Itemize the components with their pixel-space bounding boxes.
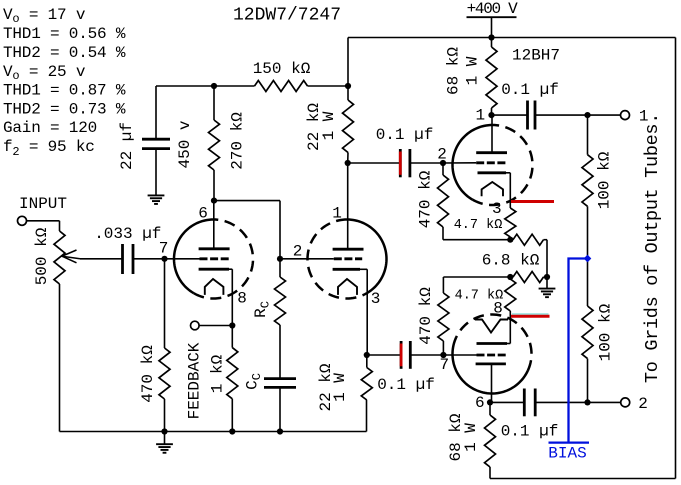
resistor 470 kΩ lower [417, 277, 449, 355]
node V1a grid pin7 [161, 256, 167, 262]
triode V1b grid [280, 258, 362, 260]
svg-text:1 W: 1 W [462, 423, 480, 452]
svg-text:8: 8 [237, 289, 247, 307]
node feedback junction [229, 322, 235, 328]
wire plate to cap upper [348, 162, 401, 164]
svg-text:500 kΩ: 500 kΩ [33, 227, 51, 285]
resistor 470 kΩ grid leak [139, 259, 170, 432]
triode V1a cathode [199, 268, 233, 271]
wire rail2 mid seg [214, 85, 255, 87]
resistor 68 kΩ 1W upper [445, 38, 497, 116]
potentiometer 500 kΩ [33, 227, 65, 285]
triode BH7b heater [475, 320, 508, 333]
tube label 12BH7 [512, 46, 560, 64]
pin label 2 V1b [293, 243, 303, 261]
terminal INPUT [18, 216, 27, 225]
svg-text:1 W: 1 W [331, 373, 349, 402]
svg-text:2: 2 [638, 395, 648, 413]
svg-text:12BH7: 12BH7 [512, 46, 560, 64]
wire pot bottom [59, 284, 61, 432]
triode V1a plate [199, 201, 230, 249]
capacitor 0.1 µf output2 [501, 389, 559, 441]
svg-text:1 W: 1 W [464, 56, 482, 85]
triode V1b envelope [308, 220, 387, 299]
terminal output 2 [621, 395, 648, 413]
svg-text:THD2 = 0.54 %: THD2 = 0.54 % [3, 44, 126, 62]
wire cap to pin7 lower [410, 354, 443, 356]
node BH7b plate pin6 [487, 399, 493, 405]
resistor 68 kΩ 1W lower [447, 402, 495, 478]
BIAS label [548, 445, 586, 463]
wire 22uf bottom lead [155, 149, 157, 195]
pin label 8 V1a [237, 289, 247, 307]
svg-text:To Grids of Output Tubes.: To Grids of Output Tubes. [642, 113, 663, 383]
resistor 4.7 kΩ lower [455, 277, 516, 311]
triode V1a envelope [174, 220, 253, 299]
capacitor .033 µf [94, 225, 161, 274]
wire pin6 to outcap2 [490, 401, 524, 403]
wire cap to pin2 upper [410, 162, 443, 164]
wire cath to cap lower [367, 354, 401, 356]
triode BH7a envelope [453, 125, 533, 205]
node BH7a grid pin2 [440, 160, 446, 166]
resistor 1 kΩ [208, 326, 237, 432]
wire outcap2 to term2 [535, 401, 620, 403]
svg-text:150 kΩ: 150 kΩ [253, 60, 311, 78]
svg-text:6.8 kΩ: 6.8 kΩ [482, 252, 540, 270]
svg-text:THD1 = 0.87 %: THD1 = 0.87 % [3, 82, 126, 100]
BIAS terminal bar [549, 441, 590, 443]
node lower row right [544, 274, 550, 280]
node bus 1k [229, 428, 235, 434]
svg-text:0.1 µf: 0.1 µf [377, 376, 435, 394]
resistor 22 kΩ 1W plate [305, 86, 353, 163]
node output1 junction [584, 112, 590, 118]
capacitor 0.1 µf output1 [501, 81, 559, 130]
note To Grids of Output Tubes [642, 113, 663, 383]
supply +400 V label [467, 0, 519, 18]
svg-text:100 kΩ: 100 kΩ [597, 303, 615, 361]
wire feedback link [199, 325, 232, 327]
label CC [244, 373, 265, 390]
triode V1a grid [165, 258, 229, 260]
triode BH7a cathode [478, 171, 511, 174]
node bus CC [277, 428, 283, 434]
triode BH7b cathode [477, 342, 511, 345]
svg-text:68 kΩ: 68 kΩ [445, 47, 463, 95]
svg-text:22 µf: 22 µf [118, 122, 136, 170]
capacitor CC [264, 379, 296, 388]
node bias tap blue diamond [584, 255, 592, 263]
wire pin6 to grid2 [214, 201, 280, 259]
svg-text:3: 3 [492, 200, 502, 218]
svg-text:6: 6 [475, 394, 485, 412]
pin label 8 BH7b [493, 300, 503, 318]
wire B+ top rail [348, 37, 676, 39]
svg-text:0.1 µf: 0.1 µf [501, 422, 559, 440]
pot wiper arrow [62, 250, 123, 263]
triode V1b heater [338, 279, 357, 295]
resistor 150 kΩ [253, 60, 311, 92]
pin label 6 BH7b [475, 394, 485, 412]
svg-text:FEEDBACK: FEEDBACK [186, 342, 204, 419]
svg-text:470 kΩ: 470 kΩ [417, 287, 435, 345]
pin label 3 V1b [371, 290, 381, 308]
title label 12DW7/7247 [233, 6, 341, 26]
svg-text:0.1 µf: 0.1 µf [501, 81, 559, 99]
wire ground bus [60, 431, 367, 433]
resistor 100 kΩ upper [582, 115, 614, 258]
resistor 470 kΩ upper [417, 163, 449, 240]
cyan artifact line lower [512, 313, 549, 315]
wire V1a cathode lead [231, 269, 233, 325]
svg-text:THD1 = 0.56 %: THD1 = 0.56 % [3, 25, 126, 43]
wire upper row [443, 239, 511, 241]
wire BH7b cathode lead [509, 311, 511, 344]
svg-text:12DW7/7247: 12DW7/7247 [233, 6, 341, 26]
svg-text:Gain = 120: Gain = 120 [3, 119, 97, 137]
node BH7b grid pin7 [440, 352, 446, 358]
triode BH7b plate [476, 364, 506, 403]
wire bias blue [569, 259, 588, 443]
red annotation line lower [511, 315, 550, 318]
svg-text:450 v: 450 v [176, 120, 194, 168]
pin label 1 V1b [332, 204, 342, 222]
node BH7a plate pin1 [488, 112, 494, 118]
terminal FEEDBACK [191, 321, 200, 330]
resistor 22 kΩ 1W cathode [317, 355, 372, 412]
svg-text:3: 3 [371, 290, 381, 308]
pin label 3 BH7a [492, 200, 502, 218]
wire B+ bottom [490, 478, 676, 480]
pin label 6 V1a [198, 204, 208, 222]
node bus 470k [161, 428, 167, 434]
svg-text:0.1 µf: 0.1 µf [376, 126, 434, 144]
wire 22uf top lead [155, 86, 157, 139]
svg-text:2: 2 [437, 145, 447, 163]
svg-text:INPUT: INPUT [19, 195, 67, 213]
wire CC bottom [279, 387, 281, 431]
triode V1a heater [205, 279, 224, 295]
svg-text:THD2 = 0.73 %: THD2 = 0.73 % [3, 101, 126, 119]
svg-text:1 W: 1 W [320, 111, 338, 140]
svg-text:100 kΩ: 100 kΩ [596, 151, 614, 209]
resistor 4.7 kΩ upper [454, 208, 516, 240]
node V1b grid junction [277, 256, 283, 262]
wire grid2 node down [279, 259, 281, 277]
INPUT label [19, 195, 67, 213]
wire lower row [443, 276, 511, 278]
svg-text:4.7 kΩ: 4.7 kΩ [454, 218, 503, 233]
ground below 22uf [148, 195, 165, 204]
node V1b plate junction [345, 160, 351, 166]
resistor 270 kΩ [209, 86, 247, 201]
svg-text:7: 7 [439, 356, 449, 374]
ground 6.8k [539, 277, 556, 297]
wire V1b cathode lead [366, 269, 368, 355]
FEEDBACK label [186, 342, 204, 419]
triode BH7a heater [482, 182, 503, 196]
red annotation line upper [511, 200, 554, 203]
pin label 7 V1a [159, 240, 169, 258]
node 270k top junction [211, 83, 217, 89]
wire +400V lead [491, 17, 493, 37]
label RC [252, 301, 273, 318]
pin label 1 BH7a [475, 107, 485, 125]
node upper cathode row [507, 237, 513, 243]
wire BH7a cathode lead [509, 173, 511, 208]
resistor 6.8 kΩ upper row [482, 234, 547, 269]
node V1a plate pin6 [211, 198, 217, 204]
ground bus symbol [156, 432, 173, 453]
wire B+ drop to V1b feed [347, 38, 349, 87]
resistor 100 kΩ lower [582, 259, 615, 403]
node output2 junction [584, 399, 590, 405]
capacitor 0.1 µf lower interstage [377, 341, 435, 394]
triode BH7b envelope [453, 315, 532, 394]
svg-text:+400 V: +400 V [467, 0, 519, 18]
measurement notes text block [3, 6, 126, 159]
resistor 6.8 kΩ lower row [513, 272, 547, 283]
svg-text:1: 1 [332, 204, 342, 222]
svg-text:.033 µf: .033 µf [94, 225, 161, 243]
svg-text:BIAS: BIAS [548, 445, 586, 463]
wire rail2 left seg [156, 85, 214, 87]
resistor RC [275, 277, 286, 379]
wire outcap to term1 [535, 114, 621, 116]
pin label 2 BH7a [437, 145, 447, 163]
svg-text:270 kΩ: 270 kΩ [229, 112, 247, 170]
wire input to pot [27, 221, 60, 231]
pin label 7 BH7b [439, 356, 449, 374]
wire 6.8k down link [546, 240, 548, 277]
wire bus to 22k cathode [366, 400, 368, 432]
capacitor 22 µf 450 v [118, 120, 194, 170]
triode V1b cathode [333, 268, 368, 271]
svg-text:1: 1 [475, 107, 485, 125]
svg-text:470 kΩ: 470 kΩ [417, 170, 435, 228]
capacitor 0.1 µf upper interstage [376, 126, 434, 177]
node rail2 right junction [345, 83, 351, 89]
triode V1b plate [333, 163, 364, 249]
svg-text:1 kΩ: 1 kΩ [208, 354, 226, 393]
node V1b cathode junction [364, 352, 370, 358]
node B+ rail junction [488, 34, 494, 40]
terminal output 1 [621, 108, 649, 126]
svg-text:2: 2 [293, 243, 303, 261]
wire cap to pin7 [133, 258, 165, 260]
wire pin1 to outcap [492, 114, 528, 116]
triode BH7b grid [443, 354, 506, 356]
triode BH7a plate [476, 115, 507, 153]
wire rail2 right seg [308, 85, 349, 87]
svg-text:470 kΩ: 470 kΩ [139, 345, 157, 403]
triode BH7a grid [443, 162, 506, 164]
node lower cathode row [507, 274, 513, 280]
wire B+ right edge [675, 38, 677, 479]
